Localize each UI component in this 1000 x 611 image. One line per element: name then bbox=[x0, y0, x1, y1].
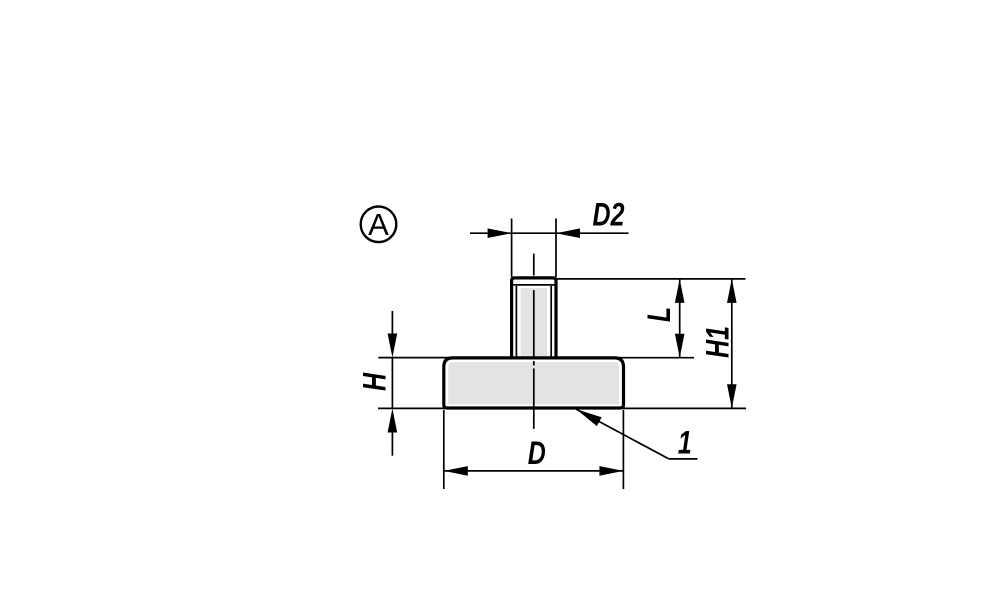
bottom extension line for L bbox=[619, 357, 694, 359]
svg-text:L: L bbox=[642, 307, 678, 322]
top extension line for L and H1 bbox=[556, 278, 745, 280]
svg-text:D: D bbox=[528, 436, 546, 472]
H1 arrow bottom bbox=[727, 384, 737, 408]
svg-text:A: A bbox=[368, 207, 389, 242]
D2 dimension line bbox=[470, 232, 629, 234]
L dimension line bbox=[679, 279, 681, 358]
threaded stud outer outline bbox=[512, 278, 556, 360]
stud thread root line left bbox=[515, 286, 517, 358]
svg-text:H1: H1 bbox=[701, 326, 737, 358]
stud chamfer line bbox=[513, 284, 554, 286]
D extension line right bbox=[622, 410, 624, 489]
svg-text:D2: D2 bbox=[593, 198, 625, 234]
H1 dimension line bbox=[731, 279, 733, 408]
svg-text:H: H bbox=[358, 372, 394, 391]
H dimension line bbox=[391, 358, 393, 409]
L arrow bottom bbox=[675, 334, 685, 358]
H arrow top bbox=[388, 334, 398, 358]
D2 arrow left bbox=[488, 228, 512, 238]
bottom extension line across bbox=[378, 407, 746, 409]
H1 arrow top bbox=[727, 279, 737, 303]
stud thread root line right bbox=[550, 286, 552, 358]
magnet pot body fill bbox=[448, 362, 619, 405]
D2 extension line left bbox=[511, 219, 513, 278]
centerline of stud bbox=[533, 254, 535, 276]
magnet pot body outline bbox=[444, 358, 624, 408]
stud thread core fill bbox=[521, 288, 547, 359]
H arrow bottom bbox=[388, 409, 398, 433]
leader line to item 1 bbox=[576, 409, 669, 459]
D2 arrow right bbox=[556, 228, 580, 238]
view label circle A bbox=[361, 207, 397, 243]
svg-text:1: 1 bbox=[678, 426, 692, 462]
D2 extension line right bbox=[555, 219, 557, 278]
D extension line left bbox=[443, 410, 445, 489]
H dimension lower tail bbox=[391, 432, 393, 456]
D dimension line bbox=[444, 470, 624, 472]
H top extension line bbox=[378, 357, 455, 359]
H dimension upper tail bbox=[391, 311, 393, 337]
leader arrow bbox=[576, 409, 601, 426]
D arrow right bbox=[599, 466, 623, 476]
D arrow left bbox=[444, 466, 468, 476]
L arrow top bbox=[675, 279, 685, 303]
